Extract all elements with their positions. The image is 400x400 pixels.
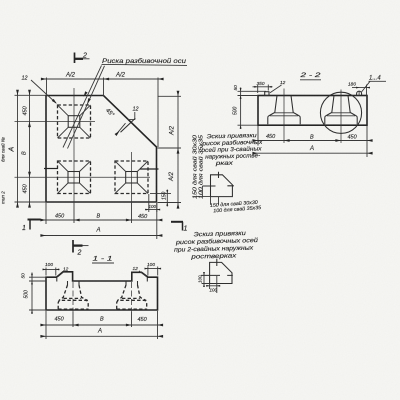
sketch 2: chamfered plan miniature <box>210 262 232 283</box>
socket S1 centerlines <box>73 88 75 203</box>
section flag 1 left <box>28 219 41 221</box>
top dimension row: extension lines <box>47 78 159 148</box>
top dimension line A/2 + A/2 <box>44 78 161 80</box>
note block 2: 2-pile grillages <box>174 230 259 261</box>
small bottom dim 100 <box>145 194 160 212</box>
riska block left on top edge <box>265 92 269 96</box>
leader for 12 at chamfer <box>128 112 135 120</box>
arrow on chamfer tick <box>115 130 121 136</box>
right dim col A/2 A/2 <box>177 94 179 206</box>
bottom dim extensions 2-2 <box>258 126 367 157</box>
socket S2 inner square <box>68 172 80 184</box>
small right dim 150 <box>150 190 171 207</box>
socket S2 centerline <box>15 176 151 178</box>
section flag 1 right <box>171 221 183 223</box>
left dim extensions <box>15 95 48 202</box>
detail circle around P2 <box>320 92 361 133</box>
pedestal P2 centerline <box>340 90 342 144</box>
caption under sketch 1 <box>210 198 262 214</box>
bottom dim extensions <box>46 203 157 239</box>
socket S3 (bottom-right pile pocket) dashed outer <box>115 161 148 194</box>
socket S3 taper diagonals <box>115 161 148 194</box>
pedestal P4 hidden (dashed) <box>126 281 138 285</box>
riska block right (oval) on top edge <box>357 91 362 95</box>
sketch 2 dim 100 bottom <box>207 276 221 293</box>
pedestal P1 centerline <box>283 89 285 144</box>
bottom dim row 450/B/450 of 1-1 <box>44 324 161 326</box>
axis riska tick on left edge <box>44 168 58 170</box>
socket S1 (top-left pile pocket) dashed outer <box>58 105 91 138</box>
bottom dim row 450/B/450 of 2-2 <box>256 140 371 142</box>
section 2-2 slab outline <box>258 96 367 126</box>
leader line 1 <box>63 65 102 147</box>
bottom dim row A of 1-1 <box>44 335 161 337</box>
bottom dim extensions 1-1 <box>46 311 158 339</box>
sketch 1 extension lines <box>194 186 219 205</box>
riska tick on chamfer <box>121 118 136 132</box>
second tick on chamfer <box>118 123 126 133</box>
pedestal P2 (pile socket in section) <box>325 96 357 125</box>
pedestal P4 centerline <box>131 282 133 312</box>
socket S2 taper diagonals <box>58 161 91 194</box>
sketch 2 riska ticks <box>201 259 233 276</box>
left dims 50/500 of 1-1 <box>29 273 46 315</box>
socket S1 taper diagonals <box>58 105 91 138</box>
pedestal P3 hidden (dashed) <box>68 281 80 285</box>
bottom dim row 450/B/450 <box>44 219 160 221</box>
socket S1 inner square <box>68 116 80 128</box>
right dim extensions <box>158 96 182 202</box>
bottom dim row A of 2-2 <box>256 152 371 154</box>
axis riska tick on right edge <box>140 168 159 170</box>
plan outline (chamfered square foundation slab) <box>46 96 157 203</box>
sketch 1: chamfered plan miniature <box>211 175 233 197</box>
section flag 2 top <box>74 53 76 64</box>
socket S3 centerline <box>131 152 133 203</box>
leader line 2 <box>68 66 105 149</box>
riska groove ticks on ledges <box>56 277 58 281</box>
socket S2 (bottom-left pile pocket) dashed outer <box>58 161 91 194</box>
pedestal P3 centerline <box>72 282 74 312</box>
left dims 50/500 of section 2-2 <box>238 88 267 130</box>
left dim col 450/B/450 <box>29 93 31 205</box>
socket S3 inner square <box>126 172 138 184</box>
left dim col A <box>17 93 19 205</box>
section flag 2 bottom <box>72 240 74 253</box>
note block 1: 3-pile grillages <box>201 133 264 168</box>
section 1-1 slab outline with riska ledges <box>46 272 158 310</box>
leader for 12 <box>31 80 56 103</box>
sketch 1 riska ticks <box>202 172 234 186</box>
pedestal P1 (pile socket in section) <box>268 96 300 125</box>
bottom dim row A <box>44 235 161 237</box>
sketch 2 dim 100 left <box>202 272 210 287</box>
